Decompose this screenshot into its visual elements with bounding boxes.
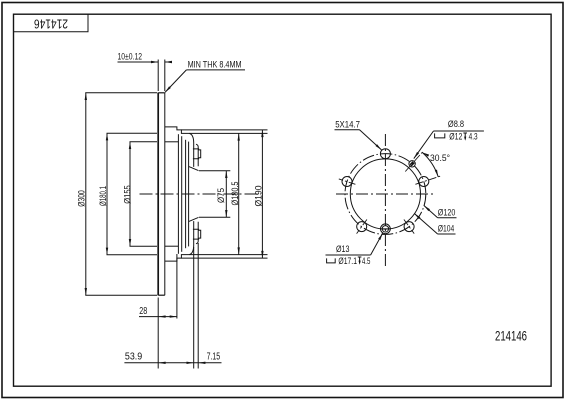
svg-text:Ø8.8: Ø8.8 — [448, 119, 464, 130]
hat inner surface bottom — [165, 245, 179, 247]
bolt hole 2 (14.7) at 162 deg — [342, 177, 352, 187]
face view vertical centre line — [384, 134, 386, 268]
flange outer face upper — [196, 144, 198, 166]
svg-text:MIN THK 8.4MM: MIN THK 8.4MM — [188, 60, 242, 71]
hat outer profile top — [165, 127, 194, 143]
dimension Ø190 — [181, 129, 267, 131]
svg-text:Ø180.5: Ø180.5 — [230, 182, 241, 206]
svg-text:Ø155: Ø155 — [122, 185, 133, 204]
svg-text:4.5: 4.5 — [362, 256, 371, 267]
face view horizontal centre line — [336, 193, 435, 195]
svg-text:Ø104: Ø104 — [438, 224, 455, 235]
bolt hole section lower — [193, 229, 201, 239]
svg-text:Ø17.1: Ø17.1 — [338, 256, 357, 267]
neck tangent edge 2 — [181, 136, 183, 252]
neck tangent edge 4 — [188, 142, 190, 247]
hat outer profile bottom — [165, 245, 194, 261]
neck tangent edge 1 — [177, 134, 179, 254]
rotor right face — [164, 93, 166, 295]
neck tangent edge 3 — [185, 140, 187, 248]
radial centre line through Ø8.8 hole — [405, 151, 423, 172]
svg-text:4.3: 4.3 — [469, 132, 478, 143]
circle Ø104 — [350, 159, 420, 229]
flange outer face lower — [196, 222, 198, 244]
hat inner surface top — [165, 141, 179, 143]
svg-text:30.5°: 30.5° — [430, 153, 450, 164]
label Ø120 — [438, 217, 457, 219]
bolt hole 5 (14.7) at 18 deg — [419, 177, 429, 187]
svg-text:28: 28 — [139, 306, 147, 317]
svg-text:Ø300: Ø300 — [77, 190, 88, 207]
svg-text:Ø190: Ø190 — [254, 186, 265, 207]
bolt hole section upper — [193, 149, 201, 159]
svg-text:Ø13: Ø13 — [336, 244, 350, 255]
dimension Ø180.5 — [189, 132, 267, 134]
dimension Ø300 — [85, 93, 87, 295]
flange inner face lower — [193, 221, 195, 245]
radial centre line through 18 deg hole — [415, 176, 440, 184]
dimension Ø180.1 — [106, 133, 108, 255]
bolt hole 3 (14.7) at 234 deg — [357, 222, 367, 232]
svg-text:10±0.12: 10±0.12 — [118, 52, 143, 63]
label Ø104 — [438, 233, 456, 235]
svg-text:214146: 214146 — [495, 329, 527, 344]
bolt hole 4 (14.7) at 306 deg — [404, 222, 414, 232]
flange inner face upper — [193, 143, 195, 167]
bore chamfer lower — [189, 217, 199, 221]
dimension 28 — [157, 298, 159, 369]
section centre line — [140, 193, 260, 195]
bolt circle Ø120 (centre line) — [345, 154, 426, 235]
rotor bottom edge — [158, 294, 165, 296]
hole Ø8.8 at 48.5 deg — [409, 161, 415, 167]
rotor left face (section) — [157, 93, 159, 295]
svg-text:5X14.7: 5X14.7 — [335, 119, 360, 130]
label Ø8.8 with counterbore Ø12 depth 4.3 — [434, 130, 484, 132]
dimension 10±0.12 — [157, 60, 159, 92]
svg-text:Ø180.1: Ø180.1 — [98, 186, 109, 206]
bolt hole 1 (14.7) at 90 deg — [380, 149, 390, 159]
note MIN THK 8.4MM — [186, 69, 245, 71]
bore chamfer upper — [189, 167, 199, 171]
svg-text:214146: 214146 — [34, 16, 68, 30]
dimension 53.9 and 7.15 — [193, 247, 195, 369]
rotor top edge — [158, 92, 165, 94]
label Ø13 with counterbore Ø17.1 depth 4.5 — [326, 254, 371, 256]
svg-text:Ø12: Ø12 — [449, 132, 462, 143]
label 5X14.7 — [335, 129, 360, 131]
svg-text:7.15: 7.15 — [207, 351, 221, 362]
svg-text:Ø120: Ø120 — [438, 207, 456, 218]
svg-text:Ø75: Ø75 — [216, 188, 227, 203]
title box — [14, 14, 89, 32]
angle dimension 30.5 deg — [422, 152, 438, 176]
hole Ø13 with counterbore Ø17.1 — [382, 226, 388, 232]
dimension Ø75 — [199, 170, 230, 172]
dimension Ø155 — [129, 142, 131, 246]
svg-text:53.9: 53.9 — [125, 351, 143, 362]
